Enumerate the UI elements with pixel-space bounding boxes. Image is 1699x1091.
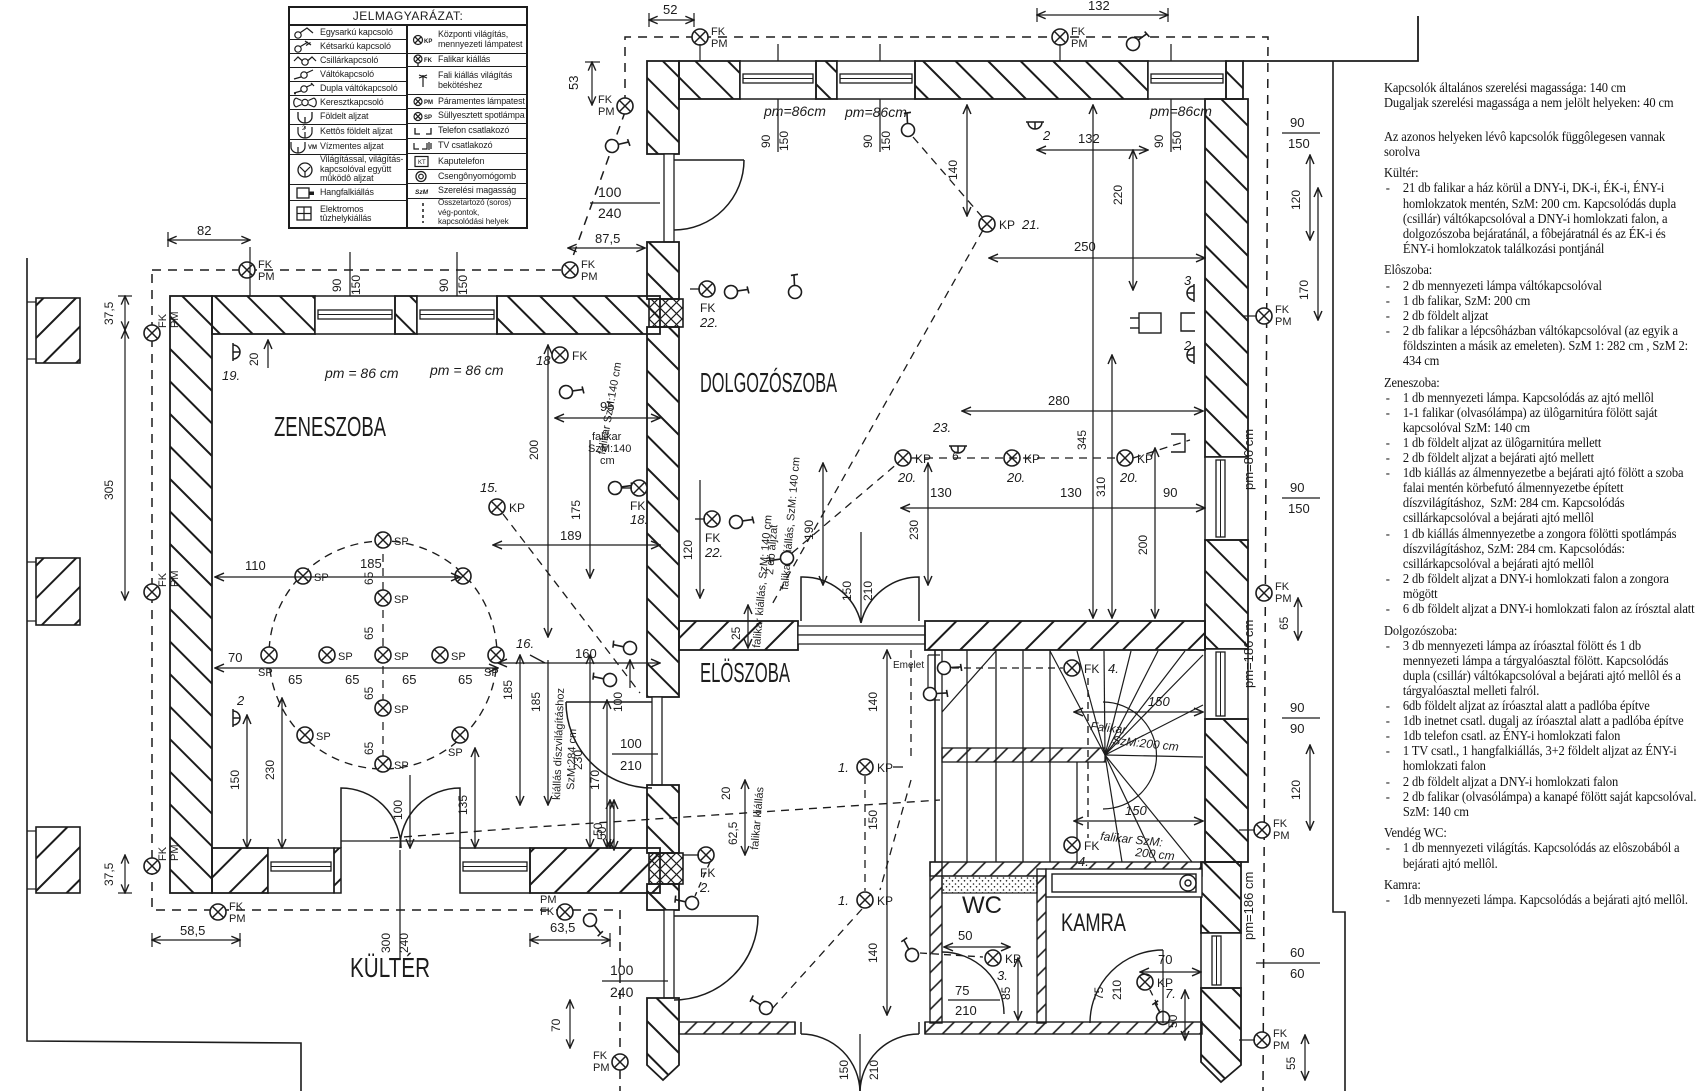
svg-text:210: 210: [955, 1003, 977, 1018]
wall top right corner: [1226, 61, 1243, 99]
switch pair FK 18 lower: [606, 473, 648, 527]
svg-text:SP: SP: [394, 760, 409, 772]
switch top right eaves: [1125, 28, 1150, 53]
dim 100 door right: [611, 660, 630, 712]
wall wc-kamra divider: [1037, 869, 1046, 1023]
svg-text:FK: FK: [1275, 581, 1290, 593]
dim 140 150 140 eloszoba: [866, 650, 887, 1015]
svg-text:3.: 3.: [997, 968, 1008, 983]
dim 120 east upper: [1289, 155, 1310, 240]
dim 55 east bottom: [1284, 1035, 1305, 1080]
svg-text:65: 65: [458, 672, 472, 687]
svg-text:1.: 1.: [838, 893, 849, 908]
svg-text:FK: FK: [1275, 304, 1290, 316]
svg-text:PM: PM: [540, 894, 557, 906]
svg-text:190: 190: [802, 520, 816, 540]
svg-text:90: 90: [1163, 485, 1177, 500]
dim 50 wc: [944, 928, 1010, 947]
chimney crosshatch lower: [649, 853, 683, 884]
svg-text:280: 280: [1048, 393, 1070, 408]
room label KULTER: [350, 952, 430, 983]
svg-text:210: 210: [1110, 980, 1124, 1000]
svg-text:KP: KP: [1024, 452, 1040, 466]
dim 345 310 dolg vertical: [1075, 105, 1112, 618]
dim 53: [566, 62, 600, 105]
wall east segment 4 kamra: [1201, 862, 1241, 933]
svg-text:210: 210: [861, 581, 875, 601]
svg-text:DOLGOZÓSZOBA: DOLGOZÓSZOBA: [700, 367, 837, 398]
window dolg top 2: [837, 61, 915, 99]
svg-text:16.: 16.: [516, 636, 534, 651]
svg-text:87,5: 87,5: [595, 231, 620, 246]
switch eloszoba entry: [749, 992, 773, 1016]
wall east segment 5: [1201, 988, 1241, 1082]
wall eloszoba bottom left: [679, 1022, 795, 1034]
svg-text:210: 210: [620, 758, 642, 773]
lamp KP 15: [480, 480, 525, 515]
svg-text:KP: KP: [1137, 452, 1153, 466]
svg-text:SP: SP: [394, 594, 409, 606]
svg-text:230: 230: [263, 760, 277, 780]
spotlamp uc: [375, 590, 409, 606]
svg-text:23.: 23.: [932, 420, 951, 435]
dim 250 dolg: [989, 239, 1205, 258]
dashed eloszoba connectors: [771, 650, 911, 1010]
dashed KP21 lines: [770, 137, 983, 608]
wall interior dolg-eloszoba right: [925, 621, 1205, 650]
svg-text:FK: FK: [258, 259, 273, 271]
dim 90 150 east mid: [1282, 480, 1320, 516]
lamp FK/PM top wall 2: [1052, 26, 1088, 61]
svg-text:210: 210: [867, 1060, 881, 1080]
lamp FK 4 stairs top: [952, 660, 1119, 838]
right vertical site line: [1333, 61, 1345, 1091]
svg-text:SP: SP: [338, 651, 353, 663]
wall zeneszoba top segment 1: [212, 296, 315, 334]
svg-text:90: 90: [1290, 480, 1304, 495]
svg-text:WC: WC: [962, 892, 1002, 919]
label 100 240 eloszoba door: [602, 962, 668, 1000]
label pm=86cm dolg window3: [1149, 103, 1212, 119]
dashed stairs falikar line: [390, 800, 940, 838]
svg-text:70: 70: [549, 1018, 563, 1032]
svg-text:SP: SP: [394, 651, 409, 663]
svg-text:KP: KP: [877, 894, 893, 908]
switch eloszoba west: [672, 887, 701, 916]
dim 230 zene right: [571, 655, 590, 848]
dim 90 150 window top c: [1152, 44, 1184, 152]
svg-text:FK: FK: [1084, 839, 1099, 853]
svg-text:PM: PM: [229, 913, 246, 925]
svg-text:65: 65: [362, 571, 376, 585]
svg-text:90: 90: [1290, 700, 1304, 715]
svg-text:150: 150: [1170, 131, 1184, 151]
svg-text:90: 90: [330, 278, 344, 292]
svg-text:58,5: 58,5: [180, 923, 205, 938]
svg-text:FK: FK: [424, 58, 433, 64]
wall zeneszoba top segment 3: [497, 296, 660, 334]
socket zeneszoba west: [233, 693, 245, 727]
stairs block: [935, 650, 1105, 862]
svg-text:FK: FK: [581, 259, 596, 271]
svg-text:150: 150: [879, 131, 893, 151]
room label DOLGOZOSZOBA: [700, 367, 837, 398]
label 75 210 kamra door: [1092, 980, 1124, 1000]
svg-text:pm=186 cm: pm=186 cm: [1241, 872, 1256, 940]
svg-text:FK: FK: [598, 94, 613, 106]
socket zeneszoba nw: [222, 343, 240, 383]
dim 90 150 window top b: [861, 44, 893, 152]
svg-text:22.: 22.: [704, 545, 723, 560]
svg-text:FK: FK: [229, 901, 244, 913]
label pm=86cm dolg window2: [844, 104, 907, 120]
dim 189: [493, 528, 660, 545]
dim 185 vertical b: [529, 660, 548, 805]
switch dolg top2: [893, 109, 923, 139]
svg-text:KÜLTÉR: KÜLTÉR: [350, 952, 430, 983]
svg-text:2: 2: [1183, 338, 1192, 353]
lamp KP 21: [979, 216, 1040, 232]
svg-text:150: 150: [840, 581, 854, 601]
door eloszoba west entry: [664, 910, 758, 1000]
fence pier 1: [27, 298, 80, 363]
svg-text:150: 150: [837, 1060, 851, 1080]
svg-text:KP: KP: [424, 39, 432, 45]
svg-text:90: 90: [437, 278, 451, 292]
svg-text:140: 140: [946, 160, 960, 180]
lamp FK 4 stairs lower: [1064, 837, 1099, 869]
svg-text:200: 200: [1136, 535, 1150, 555]
svg-text:230: 230: [571, 750, 585, 770]
dim 130 130 90 dolg: [901, 485, 1205, 508]
svg-text:55: 55: [1284, 1056, 1298, 1070]
svg-text:90: 90: [1290, 721, 1304, 736]
svg-text:100: 100: [391, 800, 405, 820]
svg-text:170: 170: [1297, 280, 1311, 300]
svg-text:52: 52: [663, 2, 677, 17]
dim 70 outdoor bottom: [549, 1000, 570, 1048]
switch dolg top: [780, 271, 810, 301]
lamp FK/PM left 1: [144, 312, 181, 342]
svg-text:7.: 7.: [1165, 986, 1176, 1001]
label 2db aljzat falikar: [764, 456, 803, 590]
svg-text:KP: KP: [509, 501, 525, 515]
label pm=186cm east: [1241, 620, 1256, 688]
svg-text:SP: SP: [484, 667, 499, 679]
plug symbol dolg right: [1130, 313, 1161, 333]
svg-text:65: 65: [402, 672, 416, 687]
label pm=86cm window 1: [324, 365, 399, 381]
label 100 240 door upper: [590, 184, 660, 221]
svg-text:18.: 18.: [630, 512, 648, 527]
svg-text:ELÖSZOBA: ELÖSZOBA: [700, 657, 790, 688]
dim 63,5 bottom: [530, 920, 610, 947]
window zeneszoba bottom 1: [268, 848, 334, 893]
svg-text:3: 3: [1184, 273, 1192, 288]
stairs emelet switches: [893, 653, 965, 709]
svg-text:1.: 1.: [838, 760, 849, 775]
lamp FK/PM right 3: [1239, 818, 1290, 842]
dim 52 top: [649, 2, 694, 27]
svg-text:PM: PM: [1275, 316, 1292, 328]
svg-text:185: 185: [501, 680, 515, 700]
wall top dolg segment 2: [816, 61, 837, 99]
lamp FK/PM right 1: [1243, 304, 1292, 328]
svg-text:345: 345: [1075, 430, 1089, 450]
dim 150 zene left: [228, 715, 247, 848]
svg-text:18: 18: [536, 353, 551, 368]
svg-text:82: 82: [197, 223, 211, 238]
dim 170 zene right: [588, 700, 607, 848]
svg-text:70: 70: [1158, 952, 1172, 967]
svg-text:pm = 86 cm: pm = 86 cm: [324, 365, 399, 381]
dim 90 150 east upper: [1282, 115, 1320, 151]
svg-text:132: 132: [1088, 0, 1110, 13]
svg-text:PM: PM: [258, 271, 275, 283]
svg-text:FK: FK: [572, 349, 587, 363]
dim 170 east: [1297, 188, 1318, 320]
svg-text:62,5: 62,5: [726, 821, 740, 845]
dim 200 dolg vertical: [1136, 448, 1155, 618]
switch zene door: [610, 632, 639, 661]
dim 132 top: [1037, 0, 1168, 22]
wc stipple band: [942, 876, 1037, 893]
svg-text:ZENESZOBA: ZENESZOBA: [274, 411, 386, 442]
svg-text:160: 160: [575, 646, 597, 661]
wall eloszoba bottom right: [925, 1022, 1202, 1034]
svg-text:240: 240: [598, 205, 622, 221]
wall middle vertical segment 3: [647, 327, 679, 697]
lamp KP 3 wc: [985, 950, 1021, 983]
wall zeneszoba bottom segment 1: [212, 848, 268, 893]
svg-text:90: 90: [759, 134, 773, 148]
svg-text:SzM: SzM: [415, 189, 429, 196]
lamp FK/PM left 2: [144, 571, 181, 601]
eaves dashed boundary left building: [152, 37, 1268, 1091]
fence pier 3: [27, 827, 80, 893]
lamp FK/PM bottom left outdoor: [593, 1050, 628, 1074]
dim 90 90 east: [1282, 700, 1320, 736]
switch zene door b: [590, 664, 619, 693]
switch eaves diagonal: [603, 130, 632, 159]
svg-text:KT: KT: [418, 160, 426, 166]
spot circle dashed: [269, 540, 497, 770]
lamp KP 1a eloszoba: [838, 759, 903, 775]
svg-text:110: 110: [245, 558, 266, 573]
svg-text:SP: SP: [394, 704, 409, 716]
dim 62,5 eloszoba: [719, 780, 767, 855]
svg-text:21.: 21.: [1021, 217, 1040, 232]
svg-text:63,5: 63,5: [550, 920, 575, 935]
svg-text:KAMRA: KAMRA: [1061, 909, 1126, 937]
svg-text:FK: FK: [593, 1050, 608, 1062]
dim 85 wc: [999, 958, 1018, 1020]
svg-text:FK: FK: [1071, 26, 1086, 38]
wall zeneszoba bottom segment 4: [530, 848, 660, 893]
svg-text:19.: 19.: [222, 368, 240, 383]
dim 150 stairs falikar lower: [1074, 803, 1203, 863]
lamp FK/PM top wall 1: [692, 26, 728, 61]
svg-text:65: 65: [288, 672, 302, 687]
dim 95 falikar: [555, 399, 660, 418]
top right corner line: [1243, 16, 1418, 61]
lamp FK 18 upper: [536, 347, 587, 368]
lamp KP 20 row: [895, 450, 1153, 485]
dim row 110 185: [215, 556, 460, 577]
svg-text:150: 150: [777, 131, 791, 151]
dim 120 east lower: [1289, 745, 1310, 830]
svg-text:50: 50: [958, 928, 972, 943]
lamp FK/PM top eaves 1: [239, 259, 275, 283]
door wc: [942, 952, 1004, 1014]
lamp-switch pair FK 22 lower: [695, 507, 757, 560]
door kamra: [1090, 950, 1163, 1023]
label falikar szm 140 b: [588, 431, 631, 467]
dim 300 240 door: [379, 850, 411, 960]
svg-text:pm=186 cm: pm=186 cm: [1241, 620, 1256, 688]
dim row 70 65x4: [215, 650, 498, 687]
svg-text:SP: SP: [451, 651, 466, 663]
wall east segment 1: [1205, 99, 1248, 457]
door front entry double: [795, 1022, 925, 1091]
dim 87,5 upper: [568, 231, 645, 248]
lamp FK/PM bottom 2: [540, 894, 573, 920]
lamp FK 2 eloszoba west: [683, 847, 715, 895]
lamp FK/PM bottom 1: [210, 901, 246, 925]
svg-text:240: 240: [397, 933, 411, 953]
svg-text:300: 300: [379, 933, 393, 953]
dim 50 zene bottom right: [591, 800, 610, 848]
svg-text:pm=86cm: pm=86cm: [1149, 103, 1212, 119]
svg-text:200 cm: 200 cm: [1134, 845, 1176, 863]
wall middle vertical segment 1: [647, 61, 679, 154]
svg-text:PM: PM: [593, 1062, 610, 1074]
dim 70 kamra: [1140, 952, 1201, 972]
dashed KP20 row: [792, 440, 1190, 553]
dim 50 kulter: [595, 800, 614, 850]
spotlamp row y655: [258, 647, 504, 679]
svg-text:2: 2: [1042, 128, 1051, 143]
dim 220 dolg: [1111, 150, 1133, 290]
svg-text:SP: SP: [316, 731, 331, 743]
bracket telefon dolg: [1171, 434, 1185, 452]
svg-text:95: 95: [600, 399, 614, 414]
wall interior dolg-eloszoba left: [679, 621, 798, 650]
lamp FK/PM right 2: [1256, 581, 1292, 605]
wall east segment 2: [1205, 540, 1248, 649]
svg-text:185: 185: [360, 556, 382, 571]
wall zeneszoba top segment 2: [395, 296, 417, 334]
svg-text:falikar kiállás: falikar kiállás: [749, 786, 766, 850]
dim 82 top left: [168, 223, 250, 296]
svg-text:150: 150: [1148, 694, 1170, 709]
svg-text:PM: PM: [1071, 38, 1088, 50]
svg-text:PM: PM: [711, 38, 728, 50]
svg-text:SP: SP: [258, 667, 273, 679]
dim 230 zene left: [263, 698, 282, 848]
dashed wc switch: [896, 936, 983, 963]
svg-text:50: 50: [595, 826, 609, 840]
dim 50 kamra: [1166, 990, 1185, 1040]
svg-text:100: 100: [611, 692, 625, 712]
svg-text:20.: 20.: [1119, 470, 1138, 485]
svg-text:4.: 4.: [1108, 661, 1119, 676]
svg-text:75: 75: [955, 983, 969, 998]
svg-text:FK: FK: [157, 313, 169, 328]
dim 132 dolg: [1037, 131, 1148, 150]
label 16.: [516, 636, 545, 663]
lamp KP 1b eloszoba: [838, 892, 893, 908]
label pm=86cm east rot: [1241, 429, 1256, 490]
svg-text:150: 150: [1288, 501, 1310, 516]
switch bottom eaves: [581, 912, 605, 936]
room label WC: [962, 892, 1002, 919]
svg-text:20: 20: [719, 786, 733, 800]
svg-text:pm=86 cm: pm=86 cm: [1241, 429, 1256, 490]
dim 305 left: [102, 330, 125, 600]
svg-text:150: 150: [456, 275, 470, 295]
svg-text:SP: SP: [424, 115, 432, 121]
svg-text:SzM:200 cm: SzM:200 cm: [1112, 733, 1180, 754]
socket 2 dolg right: [1183, 338, 1194, 364]
svg-text:pm = 86 cm: pm = 86 cm: [429, 362, 504, 378]
wall middle vertical segment 4: [647, 785, 679, 853]
svg-text:65: 65: [362, 686, 376, 700]
svg-text:70: 70: [228, 650, 242, 665]
dim 135 zene: [456, 748, 475, 848]
svg-text:132: 132: [1078, 131, 1100, 146]
svg-text:cm: cm: [600, 455, 615, 467]
bracket tv dolg right: [1181, 313, 1195, 331]
svg-text:120: 120: [1289, 780, 1303, 800]
svg-text:37,5: 37,5: [102, 862, 116, 886]
svg-text:SP: SP: [448, 747, 463, 759]
label pm=186cm east2: [1241, 872, 1256, 940]
label 75 210 wc door: [948, 983, 1000, 1018]
spotlamp lr: [448, 727, 468, 759]
svg-text:PM: PM: [1273, 830, 1290, 842]
svg-text:6: 6: [952, 449, 959, 463]
svg-text:90: 90: [861, 134, 875, 148]
svg-text:20.: 20.: [1006, 470, 1025, 485]
wall stairs bottom band: [930, 862, 1202, 876]
dim 60 60 east: [1256, 945, 1320, 981]
wall wc left: [930, 862, 942, 1023]
svg-text:170: 170: [588, 770, 602, 790]
svg-text:SP: SP: [314, 572, 329, 584]
dim 120 dolg left: [681, 480, 700, 598]
lamp FK/PM upper corner: [598, 94, 633, 118]
svg-text:20: 20: [247, 352, 261, 366]
lamp KP 7 kamra: [1137, 974, 1176, 1001]
svg-text:FK: FK: [700, 866, 715, 880]
svg-text:FK: FK: [711, 26, 726, 38]
dim 140 KP21: [946, 105, 967, 216]
svg-text:305: 305: [102, 480, 116, 500]
socket 2 dolg top: [1026, 122, 1051, 143]
svg-text:150: 150: [228, 770, 242, 790]
room label KAMRA: [1061, 909, 1126, 937]
svg-text:KP: KP: [877, 761, 893, 775]
dim 90 150 zeneszoba window 2: [437, 252, 470, 296]
svg-text:25: 25: [729, 626, 743, 640]
lamp FK/PM left 3: [144, 845, 181, 875]
dim 37,5 left top: [102, 296, 132, 330]
svg-text:2: 2: [236, 693, 245, 708]
door double dolg-eloszoba: [798, 532, 925, 644]
svg-text:15.: 15.: [480, 480, 498, 495]
svg-text:PM: PM: [598, 106, 615, 118]
